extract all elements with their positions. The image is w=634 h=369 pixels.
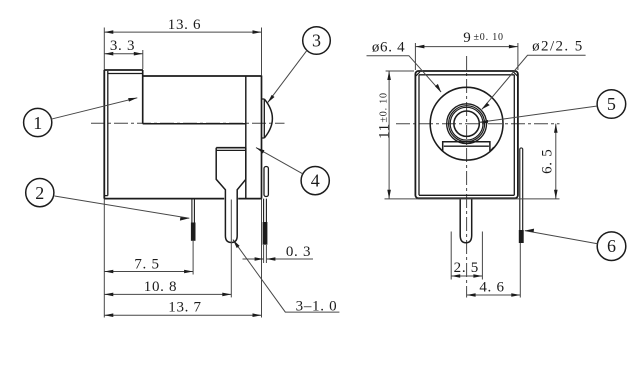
callout 3 <box>303 27 331 55</box>
dimension 13.7 <box>104 314 261 316</box>
front view vertical centerline <box>466 56 468 298</box>
front view center pin <box>460 198 472 243</box>
dimension 7.5 <box>104 271 193 273</box>
side view bore line along centerline <box>143 123 246 125</box>
side view centerline <box>91 122 285 124</box>
side view tab slot <box>264 167 268 197</box>
leader 3-1.0 <box>233 240 340 313</box>
svg-text:9: 9 <box>463 30 471 46</box>
front view barrel circle <box>430 87 503 160</box>
side view inner right wall <box>245 77 247 199</box>
dimension texts <box>33 17 616 316</box>
bottom extension line <box>385 198 560 200</box>
dimension 4.6 <box>467 294 521 296</box>
svg-text:±0. 10: ±0. 10 <box>378 92 389 122</box>
svg-text:4: 4 <box>311 171 320 191</box>
svg-text:10. 8: 10. 8 <box>144 279 178 295</box>
svg-text:6: 6 <box>607 236 616 256</box>
side view contact bump strip <box>262 99 265 138</box>
leader dia 6.4 <box>367 56 442 92</box>
front view side pin extension <box>519 243 521 298</box>
svg-text:ø2/2. 5: ø2/2. 5 <box>532 39 583 55</box>
side view left pin <box>192 199 195 223</box>
front view horizontal centerline <box>396 123 560 125</box>
dimension 3.3 <box>104 50 143 69</box>
front view side pin <box>520 148 523 230</box>
svg-text:5: 5 <box>607 94 616 114</box>
callout 6 <box>597 232 626 261</box>
svg-text:4. 6: 4. 6 <box>479 280 504 296</box>
front view body inner lines <box>419 75 514 196</box>
side view center pin funnel sides <box>216 148 246 243</box>
svg-text:7. 5: 7. 5 <box>134 257 159 273</box>
front view top corner chamfers <box>416 72 518 76</box>
svg-text:13. 7: 13. 7 <box>168 300 202 316</box>
svg-text:3–1. 0: 3–1. 0 <box>296 299 338 315</box>
dimension 0.3 <box>243 258 314 260</box>
side view center pin inner line / 10.8 extension <box>230 200 232 298</box>
svg-text:13. 6: 13. 6 <box>168 17 202 33</box>
dimension 6.5 <box>555 124 557 199</box>
callout 5 <box>597 90 626 119</box>
side view center pin funnel top <box>216 147 246 149</box>
dimension 2.5 <box>451 232 482 280</box>
svg-text:1: 1 <box>33 113 42 133</box>
svg-text:3: 3 <box>312 31 321 51</box>
leader dia 2/2.5 <box>482 55 586 109</box>
dimension 9 <box>415 43 518 70</box>
side view right pin extension lines <box>264 245 267 263</box>
svg-text:±0. 10: ±0. 10 <box>474 32 504 43</box>
svg-text:6. 5: 6. 5 <box>540 149 556 174</box>
callout 4 <box>301 167 329 195</box>
svg-text:ø6. 4: ø6. 4 <box>372 39 406 55</box>
side view body bottom edge <box>104 198 261 200</box>
svg-text:2: 2 <box>35 183 44 203</box>
svg-text:0. 3: 0. 3 <box>286 244 311 260</box>
front view key tab <box>443 142 490 152</box>
side view flange right edge <box>142 70 144 124</box>
svg-text:2. 5: 2. 5 <box>454 260 479 276</box>
callout 2 <box>26 179 54 207</box>
front view bushing rings <box>447 104 487 144</box>
text 11 +-0.10 rotated <box>376 92 392 139</box>
dimension 13.6 <box>104 31 261 33</box>
side view body right edge / extension line <box>261 28 263 318</box>
dimension 10.8 <box>104 293 231 295</box>
front view body outer <box>415 71 518 198</box>
side view contact bump arc <box>264 99 272 138</box>
dimension 11 line <box>386 71 414 199</box>
side view left pin extension line <box>192 241 194 275</box>
side view body top edge <box>143 75 262 77</box>
front view center pin circle <box>454 111 479 136</box>
side view right pin <box>264 199 267 222</box>
svg-text:11: 11 <box>376 123 392 139</box>
side view flange top edge <box>104 69 143 71</box>
side view left edge inner line <box>104 71 108 196</box>
side view left edge outer / extension line <box>103 28 105 318</box>
callout 1 <box>24 108 52 136</box>
svg-text:3. 3: 3. 3 <box>110 38 135 54</box>
